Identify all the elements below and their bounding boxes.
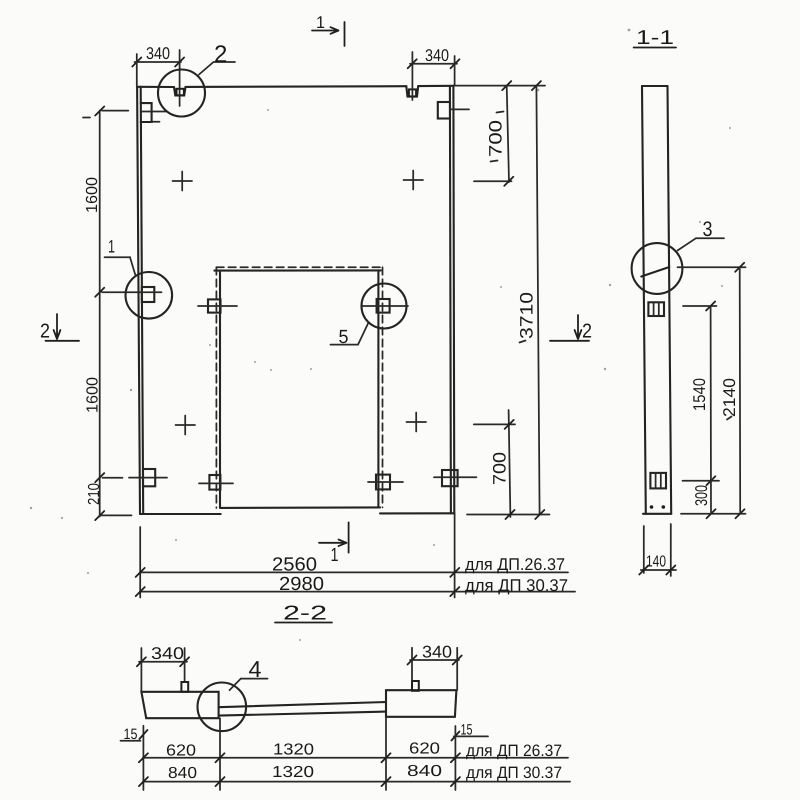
svg-text:2: 2 — [40, 321, 50, 343]
detail circle 1 — [126, 272, 173, 319]
svg-text:для ДП 30.37: для ДП 30.37 — [465, 576, 568, 595]
section 2-2 lifting loop left — [181, 682, 188, 692]
door opening solid right edge — [377, 270, 379, 507]
section marker 1 top: cut tick — [344, 22, 346, 46]
svg-text:2: 2 — [582, 321, 592, 343]
centre cross bottom-right — [407, 413, 427, 432]
left dimension chain: line — [99, 111, 101, 517]
connector at splice level — [678, 266, 746, 268]
door opening dashed right edge — [382, 267, 384, 507]
detail circle 2 — [158, 70, 205, 117]
lifting loop notch left — [174, 87, 186, 95]
top edge extension line to the right — [455, 85, 545, 87]
panel top edge (left segment) — [137, 86, 174, 88]
panel left edge inner line — [141, 87, 144, 514]
dimension 340 top-left: line — [135, 61, 182, 63]
dimension 140 — [643, 526, 645, 573]
section 1-1 bar bottom edge — [643, 513, 671, 515]
lower dimension row 840/1320/840 line — [143, 781, 570, 783]
svg-text:210: 210 — [86, 483, 103, 505]
svg-text:1540: 1540 — [690, 378, 709, 411]
svg-text:340: 340 — [425, 46, 449, 65]
panel bottom edge right segment — [380, 512, 454, 514]
section 1-1 bar left edge — [642, 86, 646, 514]
svg-text:700: 700 — [490, 452, 510, 485]
connector at upper plate level — [683, 305, 717, 307]
lifting loop right — [409, 89, 416, 96]
anchor plate top-left — [141, 103, 152, 122]
table extension line left — [139, 527, 141, 598]
panel top edge (right segment) — [418, 85, 453, 87]
section 2-2 right rib block — [386, 690, 456, 717]
svg-text:340: 340 — [151, 644, 184, 663]
dimension 340 top-right: line — [410, 63, 457, 65]
section 1-1 bar top edge — [642, 85, 668, 87]
section 2-2 web top line — [219, 702, 386, 707]
svg-text:2-2: 2-2 — [283, 603, 327, 625]
anchor plate bottom-right — [442, 470, 458, 486]
svg-text:1600: 1600 — [84, 177, 101, 213]
bottom right connector line — [467, 514, 550, 516]
door opening solid top edge — [214, 269, 380, 271]
panel top edge (middle segment) — [186, 85, 407, 88]
anchor plate top-right — [438, 102, 450, 119]
svg-text:840: 840 — [407, 763, 442, 780]
section 1-1 splice line (detail 3) — [641, 267, 669, 277]
door opening solid left edge — [219, 271, 221, 508]
svg-text:700: 700 — [486, 120, 506, 157]
embedded plate lower — [650, 473, 666, 489]
centre cross top-right — [404, 171, 424, 190]
svg-text:1-1: 1-1 — [636, 27, 674, 49]
anchor plate door-left bottom — [209, 475, 220, 490]
dimension 2140 line — [739, 267, 742, 514]
connector at lower plate level — [683, 480, 720, 482]
svg-text:340: 340 — [422, 643, 452, 662]
dimension row 2560 line — [140, 571, 568, 573]
section 2-2 lower table extensions — [142, 745, 144, 790]
svg-text:для ДП 26.37: для ДП 26.37 — [466, 742, 562, 760]
panel bottom edge left segment — [140, 513, 221, 515]
section 2-2 lifting loop right — [412, 681, 419, 691]
anchor plate door-left top — [208, 299, 221, 312]
section 2-2 dimension 340 right — [410, 659, 459, 661]
svg-text:2980: 2980 — [279, 574, 324, 595]
dimension 700 upper-right: line — [507, 86, 509, 182]
svg-text:2140: 2140 — [720, 378, 739, 417]
svg-text:1: 1 — [108, 237, 115, 257]
detail circle 3 — [632, 243, 683, 294]
svg-text:340: 340 — [146, 44, 170, 63]
svg-text:1: 1 — [316, 13, 325, 32]
left chain connectors — [102, 110, 128, 112]
centre cross bottom-left — [176, 416, 196, 435]
anchor plate door-right top (detail 5) — [377, 299, 390, 313]
dimension 340 top-right: extension lines — [411, 52, 413, 100]
svg-text:3710: 3710 — [517, 292, 537, 339]
panel right edge inner line — [450, 86, 451, 514]
svg-text:140: 140 — [646, 554, 666, 571]
svg-text:2: 2 — [214, 41, 227, 68]
detail 2 leader — [199, 62, 235, 75]
dimension 700 lower-right: line — [509, 410, 511, 517]
svg-text:2560: 2560 — [272, 555, 317, 576]
detail circle 4 — [198, 683, 247, 732]
lifting loop left — [177, 89, 184, 96]
svg-text:1: 1 — [331, 545, 339, 566]
door threshold line — [221, 506, 380, 509]
svg-text:для ДП 30.37: для ДП 30.37 — [466, 764, 562, 782]
section 2-2 left rib block — [141, 692, 218, 718]
section 2-2 dimension 340 left — [139, 661, 187, 663]
svg-text:620: 620 — [409, 741, 440, 758]
svg-text:1320: 1320 — [272, 764, 314, 781]
lifting loop notch right — [406, 86, 418, 96]
table extension line right — [454, 514, 456, 598]
svg-text:1320: 1320 — [273, 742, 314, 759]
svg-text:620: 620 — [166, 743, 196, 760]
door opening dashed top edge — [216, 266, 382, 268]
bar dots — [650, 505, 654, 509]
section 1-1 bar right edge — [668, 86, 672, 514]
svg-text:840: 840 — [168, 765, 197, 782]
panel right edge outer line — [452, 86, 455, 514]
svg-text:300: 300 — [692, 485, 711, 506]
detail circle 5 — [362, 284, 407, 329]
centre cross top-left — [173, 172, 193, 191]
section 2-2 web bottom line — [219, 712, 386, 716]
dimension 1540/300 line — [710, 306, 712, 514]
anchor plate mid-left (detail 1) — [142, 287, 155, 302]
embedded plate upper — [648, 302, 664, 316]
door opening dashed left edge — [215, 267, 217, 508]
scan specks — [254, 361, 256, 363]
dimension 3710: line — [536, 86, 539, 515]
dimension row 2980 line — [140, 591, 575, 593]
svg-text:1600: 1600 — [85, 377, 102, 413]
panel left edge outer line — [137, 87, 140, 514]
anchor plate bottom-left — [143, 469, 155, 486]
dimension 340 top-left: extension lines — [136, 54, 138, 87]
connector at bar bottom level — [681, 513, 746, 515]
anchor plate door-right bottom — [376, 475, 390, 490]
section marker 1 top: arrow line — [312, 27, 339, 34]
lower dimension row 620/1320/620 line — [143, 757, 568, 759]
svg-text:для ДП.26.37: для ДП.26.37 — [465, 555, 565, 574]
